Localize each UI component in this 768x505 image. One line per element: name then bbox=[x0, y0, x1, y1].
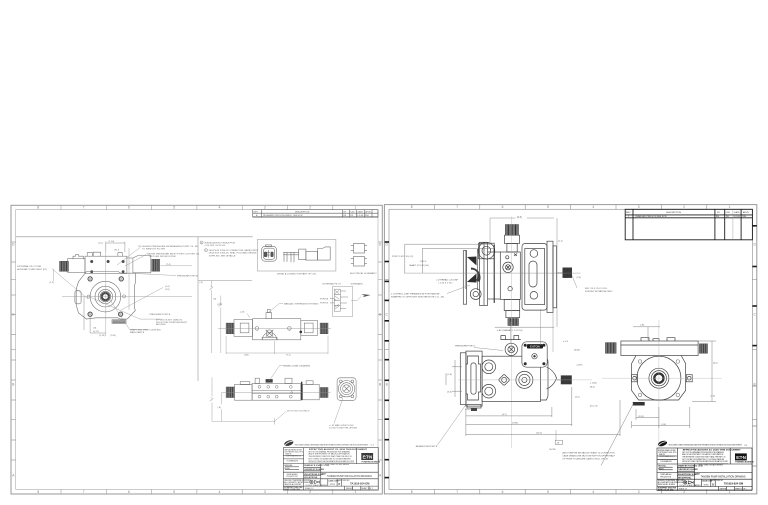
svg-text:EATON: EATON bbox=[530, 345, 540, 349]
svg-text:4X ⌀.41: 4X ⌀.41 bbox=[590, 405, 598, 408]
svg-text:(3.5): (3.5) bbox=[447, 392, 452, 394]
svg-text:DESCRIPTION: DESCRIPTION bbox=[666, 212, 681, 214]
svg-text:⌀ 1.0: ⌀ 1.0 bbox=[563, 340, 569, 343]
svg-text:AUXILIARY PUMP INLET (P1): AUXILIARY PUMP INLET (P1) bbox=[17, 268, 47, 271]
svg-text:(7.86): (7.86) bbox=[512, 423, 518, 425]
svg-text:⌀ .53 MAX OVER COILS: ⌀ .53 MAX OVER COILS bbox=[329, 424, 354, 427]
svg-text:2: 2 bbox=[309, 490, 311, 494]
svg-text:COIL NUT 4-6 FT-LB: COIL NUT 4-6 FT-LB bbox=[205, 245, 226, 247]
svg-text:B: B bbox=[379, 383, 381, 387]
svg-text:⌀.84: ⌀.84 bbox=[640, 323, 645, 326]
svg-text:A: A bbox=[256, 214, 258, 217]
svg-text:EXTERNAL PILOT: EXTERNAL PILOT bbox=[323, 283, 342, 286]
svg-text:D: D bbox=[753, 243, 756, 247]
svg-text:TO REMOTE FILTER: TO REMOTE FILTER bbox=[142, 249, 165, 251]
svg-text:BE USED: BE USED bbox=[156, 324, 166, 326]
svg-text:5: 5 bbox=[547, 490, 549, 494]
svg-text:(.8): (.8) bbox=[200, 282, 203, 284]
svg-text:B: B bbox=[754, 382, 756, 386]
svg-text:(.84): (.84) bbox=[244, 355, 249, 357]
svg-text:REV: REV bbox=[626, 212, 631, 214]
svg-text:RS: RS bbox=[716, 216, 720, 218]
svg-text:RESERVOIR PORT R: RESERVOIR PORT R bbox=[416, 446, 438, 448]
svg-text:R1.3: R1.3 bbox=[115, 250, 120, 252]
svg-text:(2.3): (2.3) bbox=[517, 217, 522, 219]
svg-text:(12.5): (12.5) bbox=[536, 433, 542, 435]
svg-text:RETURN FROM FILTER: RETURN FROM FILTER bbox=[150, 256, 176, 258]
svg-text:PORT 2.3/2.1 R (-C2): PORT 2.3/2.1 R (-C2) bbox=[392, 256, 413, 258]
svg-text:(1.52): (1.52) bbox=[638, 416, 644, 418]
svg-text:⌀ (THREAD 1.25 UNF: ⌀ (THREAD 1.25 UNF bbox=[436, 279, 458, 282]
svg-text:SUPPLIED. SEE DETAIL A: SUPPLIED. SEE DETAIL A bbox=[209, 254, 236, 257]
svg-text:7: 7 bbox=[83, 206, 85, 210]
svg-text:NOTE:: NOTE: bbox=[549, 449, 556, 451]
svg-text:DEUTSCH DT06-2S. SEAL, PLUG AN: DEUTSCH DT06-2S. SEAL, PLUG AND WEDGE bbox=[209, 252, 257, 255]
svg-text:PORT B: PORT B bbox=[320, 303, 329, 305]
svg-text:BY: BY bbox=[717, 212, 720, 214]
svg-text:WH: WH bbox=[743, 216, 747, 218]
svg-text:(.9): (.9) bbox=[93, 327, 97, 329]
svg-text:D: D bbox=[379, 243, 382, 247]
svg-text:DESCRIPTION: DESCRIPTION bbox=[295, 211, 310, 213]
svg-text:(4.66): (4.66) bbox=[574, 350, 580, 352]
svg-text:(1.6): (1.6) bbox=[447, 374, 452, 376]
svg-text:6: 6 bbox=[502, 490, 504, 494]
svg-text:INSTALLATION TORQUE FOR: INSTALLATION TORQUE FOR bbox=[205, 242, 236, 245]
svg-text:MALE PART B: MALE PART B bbox=[130, 331, 145, 334]
svg-text:5: 5 bbox=[547, 205, 549, 209]
svg-text:D: D bbox=[12, 243, 15, 247]
svg-text:( 1.25 X 1.75 ): ( 1.25 X 1.75 ) bbox=[439, 282, 453, 284]
svg-text:PORT A: PORT A bbox=[320, 297, 328, 300]
svg-text:(3.4): (3.4) bbox=[662, 424, 667, 426]
svg-text:EXTERNAL PILOT LINE: EXTERNAL PILOT LINE bbox=[17, 265, 41, 268]
svg-text:6: 6 bbox=[128, 206, 130, 210]
svg-text:4: 4 bbox=[219, 490, 221, 494]
svg-text:4: 4 bbox=[592, 490, 594, 494]
svg-text:DO NOT USE FOR LIFTING: DO NOT USE FOR LIFTING bbox=[329, 428, 357, 430]
svg-text:RELEASED PER ECN-039850 . SEE: RELEASED PER ECN-039850 . SEE ECN bbox=[263, 214, 303, 217]
svg-text:FOR KEY ROTATION ONLY: FOR KEY ROTATION ONLY bbox=[585, 290, 613, 293]
svg-text:4X ⌀.44: 4X ⌀.44 bbox=[465, 408, 473, 411]
svg-text:A: A bbox=[379, 474, 382, 478]
svg-text:SHAFT END VIEW COUPLING: SHAFT END VIEW COUPLING bbox=[130, 328, 161, 331]
svg-text:DATE: DATE bbox=[734, 211, 740, 214]
svg-text:(5.7): (5.7) bbox=[502, 414, 507, 416]
svg-text:CASE DRAIN LINE MUST BE KEPT I: CASE DRAIN LINE MUST BE KEPT IN UPPER HA… bbox=[562, 454, 615, 457]
svg-text:5: 5 bbox=[173, 490, 175, 494]
svg-text:4: 4 bbox=[219, 206, 221, 210]
svg-text:SWAPPED TO OPPOSITE SIDE SEE: SWAPPED TO OPPOSITE SIDE SEE NOTE 2 ( 1 … bbox=[391, 296, 444, 299]
svg-text:B: B bbox=[12, 383, 14, 387]
svg-text:(1.9): (1.9) bbox=[217, 304, 222, 306]
svg-text:7: 7 bbox=[456, 205, 458, 209]
svg-text:6: 6 bbox=[128, 490, 130, 494]
svg-text:B: B bbox=[386, 382, 388, 386]
svg-text:MOUNTING SURFACE: MOUNTING SURFACE bbox=[287, 409, 310, 412]
svg-text:A: A bbox=[12, 474, 15, 478]
svg-text:D: D bbox=[386, 243, 389, 247]
svg-text:CKD: CKD bbox=[726, 212, 731, 214]
svg-text:2: 2 bbox=[309, 206, 311, 210]
svg-text:WH: WH bbox=[365, 215, 369, 217]
svg-text:CKD: CKD bbox=[350, 211, 355, 213]
svg-text:1: 1 bbox=[729, 205, 731, 209]
svg-text:DATE: DATE bbox=[358, 210, 364, 213]
svg-text:MANUAL OVERRIDE BOTH ENDS: MANUAL OVERRIDE BOTH ENDS bbox=[284, 303, 319, 306]
svg-text:⌀ (.84): ⌀ (.84) bbox=[590, 382, 597, 385]
svg-text:(.9): (.9) bbox=[218, 407, 222, 409]
svg-text:C: C bbox=[386, 312, 389, 316]
svg-text:(7.4): (7.4) bbox=[166, 264, 171, 266]
svg-text:(2.2): (2.2) bbox=[575, 396, 580, 398]
svg-text:8: 8 bbox=[37, 206, 39, 210]
svg-text:APVD: APVD bbox=[743, 211, 749, 214]
svg-text:DETAIL A CONNECTOR PART OF CO: DETAIL A CONNECTOR PART OF COIL bbox=[277, 272, 317, 275]
svg-text:1: 1 bbox=[355, 206, 357, 210]
svg-text:(7.4): (7.4) bbox=[577, 277, 582, 279]
svg-text:(7.09): (7.09) bbox=[110, 335, 116, 337]
svg-text:CHANGED PER ECN SEE ECN: CHANGED PER ECN SEE ECN bbox=[635, 215, 667, 218]
svg-text:(2.19): (2.19) bbox=[99, 335, 105, 337]
svg-text:3-2-06: 3-2-06 bbox=[734, 216, 741, 218]
svg-text:7: 7 bbox=[456, 490, 458, 494]
svg-text:(.9): (.9) bbox=[213, 298, 217, 300]
svg-text:OF PUMP TO ASSURE CASE IS FULL: OF PUMP TO ASSURE CASE IS FULL OF OIL bbox=[562, 457, 609, 460]
svg-text:DK: DK bbox=[726, 216, 730, 218]
svg-text:SCHEMATIC: SCHEMATIC bbox=[351, 282, 364, 285]
svg-text:(2.8): (2.8) bbox=[165, 289, 170, 291]
svg-text:DEUTSCH DT04-2P CONNECTOR, MAT: DEUTSCH DT04-2P CONNECTOR, MATES WITH bbox=[209, 249, 259, 252]
svg-text:8: 8 bbox=[411, 205, 413, 209]
svg-text:MODEL CODE LOCATION: MODEL CODE LOCATION bbox=[284, 365, 311, 368]
svg-text:3: 3 bbox=[264, 490, 266, 494]
svg-text:3: 3 bbox=[638, 490, 640, 494]
svg-text:(1.4): (1.4) bbox=[165, 286, 170, 288]
svg-text:1-9-06: 1-9-06 bbox=[357, 215, 364, 217]
svg-text:5: 5 bbox=[173, 206, 175, 210]
svg-text:7.0/2.0: 7.0/2.0 bbox=[420, 261, 427, 263]
svg-text:1 CONTROL LINE THREADED IN PO: 1 CONTROL LINE THREADED IN PORT MAY BE bbox=[391, 293, 440, 296]
svg-text:(4.2): (4.2) bbox=[713, 362, 718, 364]
svg-text:(2.0): (2.0) bbox=[711, 396, 716, 398]
svg-text:1: 1 bbox=[355, 490, 357, 494]
svg-text:⌀.88 (THREAD 1.13 X 16): ⌀.88 (THREAD 1.13 X 16) bbox=[497, 329, 523, 332]
svg-text:⌀(.97): ⌀(.97) bbox=[577, 364, 583, 367]
svg-text:⌀(.22): ⌀(.22) bbox=[93, 330, 99, 333]
svg-text:(1.16): (1.16) bbox=[109, 241, 115, 243]
svg-text:6: 6 bbox=[502, 205, 504, 209]
svg-text:(7.1): (7.1) bbox=[286, 355, 291, 357]
svg-text:(1.3): (1.3) bbox=[50, 282, 55, 284]
svg-text:C: C bbox=[753, 312, 756, 316]
svg-text:SHAFT (2.2) R (.50): SHAFT (2.2) R (.50) bbox=[409, 264, 429, 267]
svg-text:8: 8 bbox=[37, 490, 39, 494]
svg-text:4: 4 bbox=[592, 205, 594, 209]
svg-text:PRESSURE PORT A: PRESSURE PORT A bbox=[177, 274, 198, 277]
svg-text:ELECTRICAL SCHEMATIC: ELECTRICAL SCHEMATIC bbox=[350, 272, 377, 275]
svg-text:2: 2 bbox=[683, 205, 685, 209]
svg-text:3: 3 bbox=[264, 206, 266, 210]
svg-text:KEY .25 X .25 X 1.25 L: KEY .25 X .25 X 1.25 L bbox=[585, 288, 608, 290]
svg-text:REV: REV bbox=[254, 211, 259, 213]
svg-text:PRESSURE PORT B: PRESSURE PORT B bbox=[150, 314, 171, 316]
svg-text:APVD: APVD bbox=[365, 210, 371, 213]
svg-text:8: 8 bbox=[411, 490, 413, 494]
svg-text:(8.4): (8.4) bbox=[590, 387, 595, 389]
svg-text:⌀.46: ⌀.46 bbox=[240, 310, 245, 313]
svg-text:(1.1): (1.1) bbox=[558, 241, 563, 243]
svg-text:7: 7 bbox=[83, 490, 85, 494]
svg-text:PRESSURE PORT 1: PRESSURE PORT 1 bbox=[455, 346, 476, 348]
svg-text:3: 3 bbox=[638, 205, 640, 209]
